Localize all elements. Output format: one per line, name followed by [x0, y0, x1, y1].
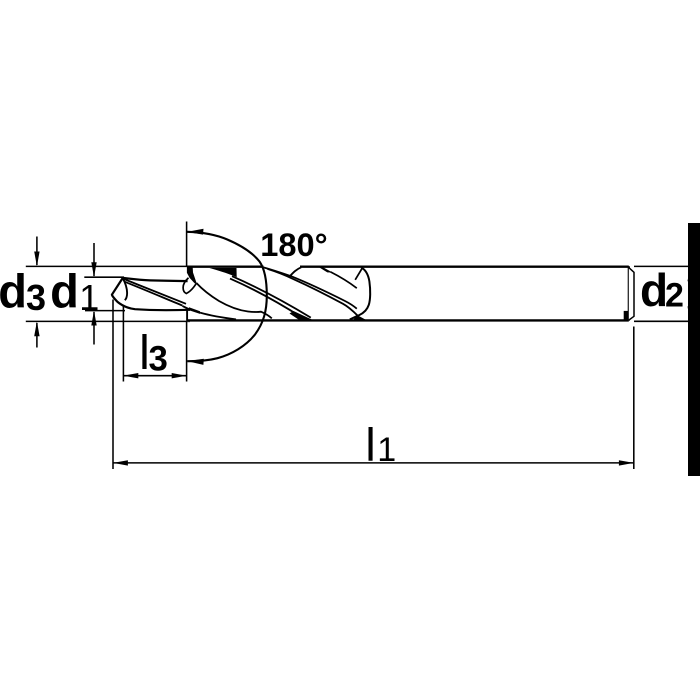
svg-text:180°: 180°: [260, 226, 327, 263]
top dip band C lower line: [268, 269, 358, 316]
node d2 lower arrowhead: [688, 306, 693, 321]
drill pilot tip white fill: [112, 278, 190, 310]
svg-text:2: 2: [665, 277, 684, 315]
wire d3 upper arrow shaft: [36, 237, 38, 266]
pilot flute band lower line: [125, 282, 183, 306]
svg-text:1: 1: [377, 431, 396, 469]
band D dash wedge: [319, 267, 333, 272]
label l3: [139, 327, 168, 380]
node l3 left arrowhead: [123, 373, 138, 378]
wire d1 upper arrow shaft: [93, 243, 95, 276]
shank end bottom black wedge: [624, 311, 629, 321]
drill body and shank white fill: [187, 266, 630, 322]
drill body top edge right segment: [300, 266, 629, 268]
node d1 upper arrowhead: [91, 262, 96, 277]
node d3 upper arrowhead: [34, 252, 39, 267]
wire l3 left extension line: [122, 307, 124, 382]
svg-text:l: l: [365, 418, 375, 470]
label d1: [50, 264, 99, 318]
label d3: [0, 264, 46, 318]
node l1 left arrowhead: [113, 460, 128, 465]
flute runout D-curve: [350, 268, 370, 320]
drill pilot tip outline: [112, 278, 190, 310]
svg-text:d: d: [640, 264, 668, 316]
node l3 right arrowhead: [172, 373, 187, 378]
svg-text:3: 3: [26, 277, 46, 318]
drill body bottom edge: [187, 319, 629, 321]
wire l1 right extension line: [633, 327, 635, 470]
svg-text:1: 1: [79, 277, 99, 318]
node 180-degree arc: [187, 232, 267, 361]
svg-text:d: d: [0, 264, 27, 317]
top dip hook curve: [290, 267, 301, 276]
wire d1 bottom extension line: [85, 310, 125, 312]
flute runout hook at step (U notch): [183, 278, 196, 294]
wire step vertical extension line upper: [186, 222, 188, 267]
wire l1 left extension line: [112, 300, 114, 470]
wire l1 dimension line: [113, 462, 634, 464]
wire d2 bottom extension line: [634, 320, 689, 322]
step bottom runout curve: [200, 313, 236, 320]
node arc bottom arrowhead: [187, 359, 204, 365]
shank end chamfer face: [629, 268, 634, 321]
svg-text:3: 3: [149, 339, 168, 378]
runout bottom junction wedge: [354, 315, 366, 320]
wire d1 lower arrow shaft: [93, 312, 95, 345]
body flute band B wedge: [210, 268, 237, 277]
black bar right edge: [688, 223, 700, 476]
pilot point facet line: [123, 278, 127, 300]
top dip band C upper line: [263, 267, 357, 309]
runout leading edge line: [355, 268, 362, 280]
wire l3 dimension line: [123, 375, 186, 377]
step corner black wedge: [187, 266, 197, 284]
band D line: [331, 272, 357, 288]
wire d3 bottom extension line: [26, 320, 190, 322]
wire d3 lower arrow shaft: [36, 323, 38, 348]
body flute band B lower line: [230, 279, 302, 318]
wire d1 top extension line: [84, 276, 124, 278]
node arc top arrowhead: [187, 229, 204, 235]
wire d3 top extension line: [26, 265, 190, 267]
step bottom vertical edge: [186, 309, 188, 321]
pilot flute band upper line: [124, 279, 186, 304]
node d3 lower arrowhead: [34, 321, 39, 336]
node d1 lower arrowhead: [91, 311, 96, 326]
body flute band B upper line: [232, 276, 311, 317]
wire step vertical extension line lower: [186, 321, 188, 382]
pilot band bottom junction wedge: [182, 305, 190, 311]
step bottom wedge: [189, 307, 200, 314]
wire d2 top extension line: [634, 265, 689, 267]
shank end vertical edge: [628, 266, 630, 321]
drill body top edge left segment: [187, 266, 264, 268]
node d2 upper arrowhead: [688, 266, 693, 281]
body flute band B bottom wedge: [290, 311, 313, 320]
flute valley curve from step: [196, 283, 271, 318]
label d2: [640, 264, 684, 316]
label l1: [365, 418, 396, 470]
node l1 right arrowhead: [619, 460, 634, 465]
wire d2 arrow shafts: [688, 266, 690, 321]
svg-text:d: d: [50, 264, 79, 317]
